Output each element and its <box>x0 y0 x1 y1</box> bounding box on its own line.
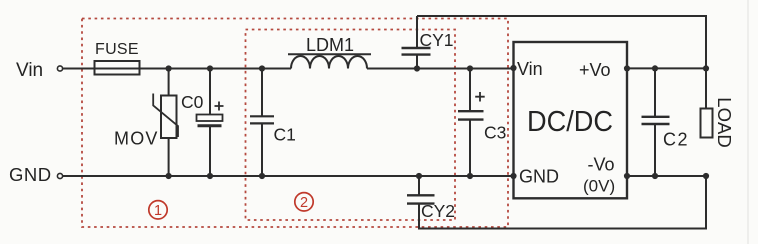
capacitor CY2 <box>407 176 455 221</box>
svg-text:1: 1 <box>154 203 162 219</box>
svg-text:FUSE: FUSE <box>95 41 139 58</box>
DC/DC converter module U1 <box>514 42 628 198</box>
svg-text:GND: GND <box>519 167 559 187</box>
inductor LDM1 (choke) <box>288 35 371 69</box>
dashed enclosure box 2 (differential filter stage) <box>246 30 456 221</box>
svg-text:GND: GND <box>9 164 52 185</box>
svg-text:-Vo: -Vo <box>588 155 615 175</box>
svg-text:CY1: CY1 <box>420 30 454 50</box>
node label circled 2 <box>295 193 313 211</box>
svg-text:LOAD: LOAD <box>714 97 735 147</box>
wire: CY2 bottom bridge to output side <box>419 176 706 229</box>
capacitor CY1 <box>402 16 454 69</box>
svg-text:CY2: CY2 <box>421 201 455 221</box>
svg-text:MOV: MOV <box>114 129 159 149</box>
wire: CY1 top bridge to output side <box>417 16 706 109</box>
junction dots output rails <box>624 65 709 179</box>
svg-text:Vin: Vin <box>517 59 543 79</box>
svg-text:C0: C0 <box>181 92 204 112</box>
wire: top input rail after choke to DC/DC <box>367 68 514 70</box>
terminal GND <box>57 173 62 178</box>
capacitor C1 <box>250 69 296 177</box>
svg-text:DC/DC: DC/DC <box>527 106 613 138</box>
junction dots top rail <box>166 65 517 72</box>
junction dots bottom rail <box>166 173 517 179</box>
dashed enclosure box 1 (outer filter stage) <box>82 19 508 228</box>
wire: top input rail Vin <box>63 68 292 70</box>
capacitor C0 (electrolytic) <box>181 69 224 177</box>
wire: -Vo output rail <box>627 175 706 177</box>
node label circled 1 <box>149 201 167 219</box>
svg-text:Vin: Vin <box>16 60 43 81</box>
svg-text:C2: C2 <box>663 130 689 150</box>
svg-text:LDM1: LDM1 <box>306 35 354 55</box>
svg-text:C1: C1 <box>274 125 296 145</box>
fuse F1 <box>95 61 140 75</box>
svg-text:(0V): (0V) <box>583 177 615 196</box>
svg-text:C3: C3 <box>484 123 506 143</box>
svg-text:+Vo: +Vo <box>579 60 611 80</box>
wire: bottom input rail GND <box>63 175 514 177</box>
wire: +Vo output rail <box>627 67 706 69</box>
svg-text:2: 2 <box>300 195 308 211</box>
resistor LOAD <box>701 97 736 147</box>
terminal Vin <box>57 66 62 71</box>
capacitor C3 (electrolytic) <box>458 69 506 177</box>
varistor MOV <box>114 69 178 177</box>
capacitor C2 <box>642 68 690 176</box>
